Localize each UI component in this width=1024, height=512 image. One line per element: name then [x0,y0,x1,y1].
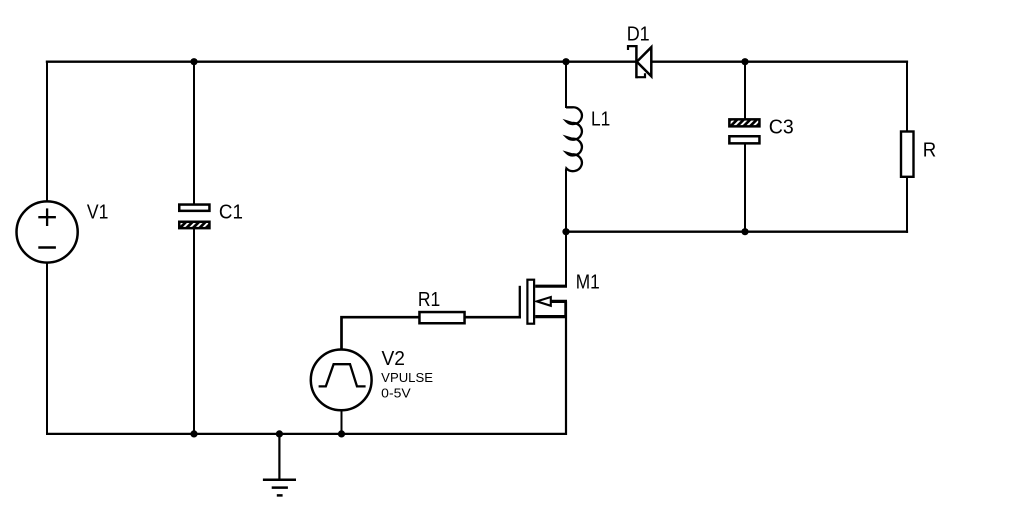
wire switch-node vertical upper (top rail to L1) [565,62,567,108]
ground [263,480,296,496]
wire C1 branch upper [193,62,195,204]
wire ground stub [278,434,280,480]
voltage source V1 [16,201,77,262]
wire top rail left (V1 top to D1 anode side) [46,61,637,63]
junction bottom rail / C1 [190,430,197,437]
junction top rail / C1 [190,58,197,65]
wire R1 right lead to M1 gate [465,316,521,319]
svg-text:V2: V2 [382,348,406,370]
svg-text:L1: L1 [591,108,610,130]
wire switch-node vertical lower (L1 to M1 drain) [565,170,567,287]
wire top rail right (D1 to top-right corner) [651,61,908,63]
resistor R1 [419,312,464,323]
capacitor C3 [729,119,759,143]
svg-text:D1: D1 [627,24,650,46]
svg-text:R: R [923,139,937,161]
mosfet M1 [520,280,567,324]
svg-text:0-5V: 0-5V [381,385,411,400]
inductor L1 [566,107,582,171]
svg-text:V1: V1 [87,201,109,223]
wire right vertical upper (top rail to R) [906,61,908,132]
junction bottom rail / V2 [338,430,345,437]
wire gate net (V2 top to R1 left lead) [342,317,420,349]
svg-text:M1: M1 [576,271,600,293]
wire left vertical lower (V1 to bottom rail) [46,263,48,436]
wire C3 branch upper [744,62,746,119]
wire bottom rail [46,433,567,435]
capacitor C1 [179,205,209,229]
svg-text:VPULSE: VPULSE [381,370,433,385]
junction mid rail / C3 [741,228,748,235]
wire V2 bottom stub [341,411,343,434]
pulse source V2 [311,350,372,411]
wire C1 branch lower [193,229,195,434]
svg-text:C1: C1 [219,201,243,223]
diode D1 (schottky) [628,45,651,78]
wire right vertical lower (R to mid rail) [906,178,908,233]
wire C3 branch lower [744,144,746,232]
wire left vertical upper (top rail down to V1) [46,61,48,203]
junction top rail / switch node [562,58,569,65]
junction bottom rail / ground [276,430,283,437]
wire M1 source to bottom rail [565,317,567,435]
junction top rail / C3 [741,58,748,65]
svg-text:R1: R1 [418,289,440,311]
svg-text:C3: C3 [769,116,794,138]
resistor R [901,132,914,177]
junction mid rail / switch node [562,228,569,235]
wire mid rail (switch node to right vertical) [566,230,908,232]
